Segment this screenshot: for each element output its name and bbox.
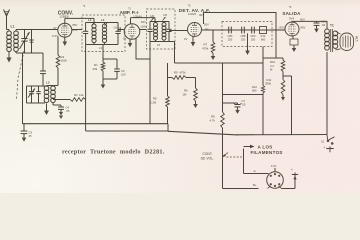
svg-text:85V: 85V <box>73 23 78 27</box>
svg-text:SALIDA: SALIDA <box>282 11 301 16</box>
ground under L1 <box>6 52 11 63</box>
label 118V U2 <box>141 25 147 29</box>
label CONT DE VOL <box>201 152 214 161</box>
svg-text:ALT.: ALT. <box>355 36 359 42</box>
socket pins <box>270 173 281 187</box>
label L2 <box>46 81 50 85</box>
svg-text:A-: A- <box>254 169 257 173</box>
arrow L6 <box>151 18 154 22</box>
ground U2 <box>128 39 133 47</box>
svg-text:L1: L1 <box>11 25 15 29</box>
svg-text:+: + <box>291 168 293 172</box>
label R8 <box>210 115 216 123</box>
label *2 <box>128 6 131 10</box>
arrow L5 <box>163 17 166 21</box>
wire IF2 out <box>169 30 188 32</box>
coil IF1 secondary <box>102 24 106 43</box>
wire socket right <box>279 173 295 189</box>
label 0V U1 <box>53 26 56 30</box>
label L6 <box>151 14 155 18</box>
wire down left <box>22 53 24 124</box>
coil IF1 primary <box>92 24 96 43</box>
wire U1 to IF1 <box>72 29 82 31</box>
wire R7 top <box>212 30 214 42</box>
capacitor C4 <box>58 107 64 119</box>
label R6 <box>183 89 189 97</box>
resistor R10 <box>281 58 285 72</box>
wire U2 plate <box>130 18 132 24</box>
wire AVC drop <box>85 45 87 132</box>
label C4 <box>66 106 70 113</box>
wire R9 to R6 <box>186 78 196 89</box>
capacitor IF1 pri <box>83 23 88 45</box>
resistor R1 <box>101 62 105 71</box>
svg-text:0V: 0V <box>53 26 56 30</box>
svg-text:*1: *1 <box>83 4 86 8</box>
label R9 <box>174 71 186 75</box>
label L4 <box>88 18 92 22</box>
svg-text:FILAMENTOS: FILAMENTOS <box>251 150 283 155</box>
svg-text:L6: L6 <box>151 14 155 18</box>
label 12BE6 <box>59 15 68 19</box>
svg-text:A LOS: A LOS <box>258 144 273 149</box>
label A- <box>254 169 257 173</box>
svg-text:470k: 470k <box>202 46 209 50</box>
svg-text:4.7k: 4.7k <box>210 118 216 122</box>
label -6.5V U1 <box>52 34 59 38</box>
coil T1 primary <box>325 29 330 50</box>
svg-text:*4: *4 <box>289 5 292 9</box>
label T1 <box>330 24 334 28</box>
svg-text:60V: 60V <box>300 17 305 21</box>
label 3V4 <box>289 17 295 21</box>
arrow a los <box>244 145 255 149</box>
gang link dashes <box>17 51 25 100</box>
resistor R4 <box>56 55 60 68</box>
capacitor IF2 pri <box>147 22 152 42</box>
wire line2 <box>86 130 168 132</box>
wire R5 branch <box>167 63 169 78</box>
wire L1 tops <box>7 30 17 32</box>
wire U4 plate <box>292 21 327 29</box>
label AMP <box>120 10 139 15</box>
arrow L3 <box>105 22 108 26</box>
wire R10 R11 <box>282 72 284 80</box>
svg-text:DE VOL.: DE VOL. <box>201 156 214 160</box>
label 12AV6 <box>188 12 197 16</box>
label C6 <box>114 26 118 30</box>
coil L2 right <box>51 86 56 103</box>
wire R5 bottom <box>167 107 169 124</box>
switch S1 <box>327 135 335 145</box>
ground R6 <box>193 101 198 108</box>
label CONV <box>58 11 74 17</box>
tube U1 converter <box>58 23 72 37</box>
label R10 <box>270 60 276 72</box>
capacitor C5 <box>103 69 126 79</box>
wire socket left <box>244 173 269 175</box>
speaker <box>340 33 354 51</box>
svg-text:*3: *3 <box>188 4 191 8</box>
core T1 <box>331 29 333 52</box>
coil T1 secondary <box>333 31 338 48</box>
wire C16 lead <box>316 21 318 23</box>
svg-text:B+: B+ <box>253 183 257 187</box>
capacitor IF1 sec <box>115 23 120 45</box>
label 75V U3 <box>205 28 210 32</box>
svg-text:-6.5V: -6.5V <box>52 34 59 38</box>
svg-text:R2: R2 <box>74 93 78 97</box>
label B+ <box>253 183 257 187</box>
svg-text:390k: 390k <box>265 82 272 86</box>
svg-text:82V: 82V <box>141 20 146 24</box>
capacitor C8B <box>240 27 245 42</box>
tube socket <box>267 172 284 189</box>
label L3 <box>101 18 105 22</box>
wire R1 cap branch <box>103 59 117 69</box>
label R4 <box>61 55 68 63</box>
ground U4 cathode <box>292 45 297 52</box>
wire drop IF2 pri <box>154 18 156 22</box>
wire R2 left <box>53 99 70 101</box>
dashed box IF2 <box>146 9 175 49</box>
svg-text:.05: .05 <box>66 109 70 113</box>
wire grid tap <box>283 75 292 77</box>
resistor R12 <box>261 86 264 94</box>
dashed box couplate <box>222 22 272 47</box>
label L1 <box>11 25 15 29</box>
wire IF2 top <box>150 22 169 23</box>
label S1 <box>321 140 325 144</box>
svg-text:C5: C5 <box>121 69 125 73</box>
wire U2 cathode <box>136 39 150 60</box>
wire drop IF1 pri <box>93 18 95 22</box>
label 50V U3 <box>204 23 209 27</box>
capacitor C2 <box>40 71 46 86</box>
capacitor C7 <box>234 103 242 114</box>
wire C2 top <box>42 53 44 71</box>
svg-text:2.2M: 2.2M <box>150 100 157 104</box>
svg-text:6.3V: 6.3V <box>271 164 277 168</box>
svg-text:L3: L3 <box>101 18 105 22</box>
wire couplate to U4 <box>272 29 285 31</box>
svg-text:L2: L2 <box>46 81 50 85</box>
wire bus1-bus2 link <box>167 124 169 132</box>
wire R4 to coil <box>47 68 59 86</box>
label 12BA6 <box>133 14 142 18</box>
svg-text:50V: 50V <box>204 23 209 27</box>
label R7 <box>202 43 209 51</box>
svg-text:200: 200 <box>251 37 256 41</box>
svg-text:L4: L4 <box>88 18 92 22</box>
resistor R13 block <box>260 27 267 42</box>
wire vol vertical <box>222 63 224 112</box>
wire couplate ground <box>247 33 249 49</box>
wire bus2 <box>168 131 327 135</box>
wire grid bus <box>16 29 58 31</box>
svg-text:+: + <box>324 145 326 149</box>
wire AVC bus <box>175 62 264 64</box>
svg-text:.02: .02 <box>321 23 325 27</box>
label *1 <box>83 4 86 8</box>
tube U4 <box>285 22 299 36</box>
coil IF2 primary <box>154 23 158 41</box>
capacitor IF2 sec <box>166 22 171 42</box>
svg-text:680: 680 <box>252 89 257 93</box>
pot wiper arrow <box>223 153 229 158</box>
label C14 <box>29 131 33 138</box>
svg-text:250: 250 <box>228 37 233 41</box>
resistor R5 <box>166 78 170 108</box>
svg-text:T1: T1 <box>330 24 334 28</box>
label 60V U4 <box>300 17 305 21</box>
label R11 <box>265 78 272 86</box>
capacitor C16 <box>314 23 320 33</box>
resistor R9 <box>172 76 186 80</box>
resistor R11 <box>281 80 285 95</box>
coil IF2 secondary <box>162 23 166 41</box>
wire bus1 <box>23 123 169 125</box>
wire switch riser <box>243 149 245 174</box>
battery symbol right <box>324 145 334 152</box>
ground U1 cathode <box>63 37 68 46</box>
coil L1 secondary <box>14 31 19 52</box>
svg-text:100: 100 <box>121 73 126 77</box>
wire jog <box>263 57 283 59</box>
svg-text:0V: 0V <box>184 37 187 41</box>
svg-text:12AV6: 12AV6 <box>188 12 197 16</box>
wire socket bottom <box>223 186 271 189</box>
svg-text:R12: R12 <box>252 85 257 89</box>
label R1 <box>93 63 99 71</box>
ground R7 <box>211 53 216 60</box>
svg-text:0V: 0V <box>123 37 126 41</box>
wire U1 osc grid <box>57 37 59 56</box>
label R2 <box>74 93 84 97</box>
label L5 <box>164 13 168 17</box>
wire U1 plate <box>64 18 66 23</box>
label C16 <box>321 20 327 28</box>
wire C7 lead <box>223 103 238 105</box>
resistor R6 <box>194 88 198 101</box>
wire R9 h <box>168 77 173 79</box>
wire det out <box>202 29 223 31</box>
wire T1 sec top <box>335 31 340 34</box>
caption <box>62 149 165 156</box>
svg-text:12BA6: 12BA6 <box>133 14 142 18</box>
label 6.3 <box>271 164 277 168</box>
svg-text:3V4: 3V4 <box>289 17 295 21</box>
svg-text:L3: L3 <box>99 46 103 50</box>
coil L2 left <box>44 86 49 103</box>
svg-text:CONT.: CONT. <box>202 152 212 156</box>
wire IF2 cap down <box>174 42 176 64</box>
wire socket top <box>274 168 276 172</box>
tube U2 <box>124 24 140 40</box>
svg-text:L5: L5 <box>164 13 168 17</box>
resistor R12 box <box>290 36 298 45</box>
junction dot <box>236 134 237 135</box>
wire osc tank top <box>27 85 48 87</box>
wire x291 vertical <box>291 76 293 135</box>
trimmer C3b <box>36 86 40 103</box>
ground L2 left <box>44 104 49 116</box>
arrow R11 end <box>281 95 285 101</box>
svg-text:20k: 20k <box>93 67 98 71</box>
wire osc tank bottom <box>27 102 46 104</box>
wire U3 plate top <box>204 13 277 59</box>
label 85V U4 <box>301 26 306 30</box>
wire T1 sec bot <box>335 49 340 50</box>
dashed box IF1 <box>82 15 125 52</box>
label R5 <box>150 97 157 105</box>
arrow L4 <box>92 22 95 26</box>
svg-text:85V: 85V <box>301 26 306 30</box>
capacitor C3 variable <box>28 86 35 103</box>
capacitor C1 <box>20 30 30 54</box>
label 30V U3 <box>199 13 204 17</box>
svg-text:12k: 12k <box>79 93 84 97</box>
label *3 <box>188 4 191 8</box>
svg-text:C6: C6 <box>114 26 118 30</box>
label 0V U2 <box>123 37 126 41</box>
svg-text:680: 680 <box>261 37 266 41</box>
label C7 <box>242 99 246 107</box>
label 85V U1 <box>73 23 78 27</box>
svg-text:receptor Truetone modelo D2281: receptor Truetone modelo D2281. <box>62 149 165 156</box>
svg-text:S1: S1 <box>321 140 325 144</box>
label 0V U3 <box>184 37 187 41</box>
label *4 <box>289 5 292 9</box>
wire IF2 bot <box>150 41 175 42</box>
label L5 bottom <box>157 43 161 47</box>
svg-text:L5: L5 <box>157 43 161 47</box>
svg-text:.05: .05 <box>242 103 246 107</box>
antenna <box>4 10 10 30</box>
svg-text:25: 25 <box>29 134 33 138</box>
wire couplate bus <box>222 29 285 31</box>
coil L1 primary <box>7 31 12 52</box>
svg-text:1M: 1M <box>183 92 188 96</box>
wire C7 branch <box>223 94 264 96</box>
label 82V U2 <box>141 20 146 24</box>
svg-text:M: M <box>270 68 273 72</box>
label ALT <box>355 36 359 42</box>
label DET <box>179 8 211 14</box>
wire x150 vertical <box>149 42 151 124</box>
wire T1 down <box>326 52 328 135</box>
wire x263 vertical <box>262 47 264 135</box>
resistor R7 <box>211 42 215 53</box>
capacitor C8A <box>227 27 232 42</box>
capacitor C6 <box>118 27 120 31</box>
wire osc tank left <box>26 86 28 103</box>
label 45V U1 <box>73 28 78 32</box>
wire U2 to IF2 <box>140 29 147 31</box>
battery plus <box>291 168 298 179</box>
label A LOS <box>258 144 273 149</box>
wire pot below <box>222 135 224 189</box>
label R12 <box>252 85 257 93</box>
trimmer C1b <box>29 30 34 54</box>
resistor R8 <box>221 112 225 128</box>
label L3 bottom <box>99 46 103 50</box>
wire R8 bottom <box>222 128 224 135</box>
wire L2 right bottom <box>53 103 61 107</box>
tube U3 <box>188 23 202 37</box>
ground couplate <box>245 50 250 56</box>
label FILAMENTOS <box>251 150 283 155</box>
resistor R2 <box>70 98 86 102</box>
ground R1 <box>101 71 106 89</box>
svg-text:470k: 470k <box>180 71 187 75</box>
svg-text:R9: R9 <box>174 71 178 75</box>
wire B+ rail <box>65 17 94 19</box>
capacitor C14 <box>21 124 28 142</box>
wire R1 top <box>102 45 104 63</box>
switch link dashes <box>227 156 243 158</box>
label 135V U4 <box>278 26 284 30</box>
label SALIDA <box>282 11 301 16</box>
wire L1 bottom <box>16 52 43 54</box>
wire IF1 bot <box>86 43 118 45</box>
svg-text:250: 250 <box>241 37 246 41</box>
wire IF1 top <box>86 23 118 25</box>
svg-text:150k: 150k <box>61 59 68 63</box>
capacitor C8C <box>250 27 255 42</box>
wire IF1 sec out <box>118 29 124 31</box>
svg-text:118V: 118V <box>141 25 147 29</box>
svg-text:135V: 135V <box>278 26 284 30</box>
wire B+ rail 2 <box>131 17 156 19</box>
ground U3 <box>191 37 196 47</box>
